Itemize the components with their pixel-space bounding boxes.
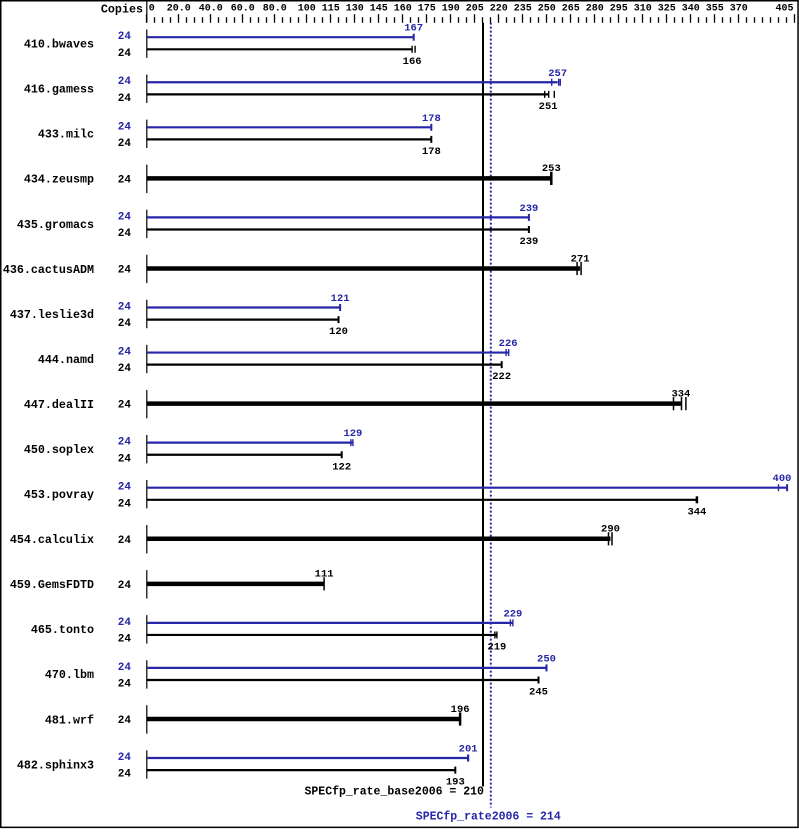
svg-text:280: 280 <box>586 4 604 15</box>
svg-text:178: 178 <box>422 113 441 125</box>
svg-text:24: 24 <box>118 318 132 330</box>
svg-text:239: 239 <box>519 203 538 215</box>
svg-text:24: 24 <box>118 498 132 510</box>
svg-text:20.0: 20.0 <box>167 4 191 15</box>
svg-text:416.gamess: 416.gamess <box>24 83 94 97</box>
svg-text:370: 370 <box>730 4 748 15</box>
svg-text:470.lbm: 470.lbm <box>45 668 94 682</box>
svg-text:SPECfp_rate2006 = 214: SPECfp_rate2006 = 214 <box>416 811 561 824</box>
svg-text:24: 24 <box>118 31 132 43</box>
svg-text:160: 160 <box>394 4 412 15</box>
svg-text:175: 175 <box>418 4 436 15</box>
svg-text:482.sphinx3: 482.sphinx3 <box>17 758 94 772</box>
svg-text:24: 24 <box>118 634 132 646</box>
svg-text:24: 24 <box>118 347 132 359</box>
svg-text:271: 271 <box>571 253 590 265</box>
svg-text:222: 222 <box>492 371 511 383</box>
svg-text:Copies: Copies <box>101 3 143 17</box>
svg-text:40.0: 40.0 <box>199 4 223 15</box>
svg-text:340: 340 <box>682 4 700 15</box>
svg-text:453.povray: 453.povray <box>24 488 94 502</box>
svg-text:129: 129 <box>343 428 362 440</box>
svg-text:24: 24 <box>118 138 132 150</box>
svg-text:122: 122 <box>332 461 351 473</box>
svg-text:0: 0 <box>149 4 155 15</box>
svg-text:24: 24 <box>118 580 132 592</box>
svg-text:410.bwaves: 410.bwaves <box>24 38 94 52</box>
svg-text:235: 235 <box>514 4 532 15</box>
svg-text:400: 400 <box>773 473 792 485</box>
svg-text:24: 24 <box>118 482 132 494</box>
svg-text:436.cactusADM: 436.cactusADM <box>3 263 94 277</box>
svg-text:447.dealII: 447.dealII <box>24 398 94 412</box>
svg-text:465.tonto: 465.tonto <box>31 623 94 637</box>
svg-text:265: 265 <box>562 4 580 15</box>
svg-text:245: 245 <box>529 687 548 699</box>
svg-text:334: 334 <box>671 388 690 400</box>
svg-text:344: 344 <box>687 506 706 518</box>
svg-text:434.zeusmp: 434.zeusmp <box>24 173 94 187</box>
svg-text:219: 219 <box>487 642 506 654</box>
svg-text:229: 229 <box>503 608 522 620</box>
svg-text:24: 24 <box>118 121 132 133</box>
svg-text:295: 295 <box>610 4 628 15</box>
svg-text:24: 24 <box>118 437 132 449</box>
svg-text:190: 190 <box>442 4 460 15</box>
svg-text:111: 111 <box>315 569 334 581</box>
svg-text:24: 24 <box>118 662 132 674</box>
svg-text:444.namd: 444.namd <box>38 353 94 367</box>
svg-text:201: 201 <box>459 744 478 756</box>
svg-text:145: 145 <box>370 4 388 15</box>
svg-text:24: 24 <box>118 400 132 412</box>
svg-text:450.soplex: 450.soplex <box>24 443 94 457</box>
svg-text:250: 250 <box>537 653 556 665</box>
svg-text:205: 205 <box>466 4 484 15</box>
svg-text:24: 24 <box>118 228 132 240</box>
svg-text:437.leslie3d: 437.leslie3d <box>10 308 94 322</box>
svg-text:24: 24 <box>118 715 132 727</box>
svg-text:24: 24 <box>118 93 132 105</box>
svg-text:24: 24 <box>118 769 132 781</box>
svg-text:250: 250 <box>538 4 556 15</box>
svg-text:24: 24 <box>118 265 132 277</box>
svg-text:405: 405 <box>775 4 793 15</box>
svg-text:355: 355 <box>706 4 724 15</box>
svg-text:435.gromacs: 435.gromacs <box>17 218 94 232</box>
svg-text:121: 121 <box>331 293 350 305</box>
svg-text:60.0: 60.0 <box>231 4 255 15</box>
svg-text:310: 310 <box>634 4 652 15</box>
svg-text:24: 24 <box>118 679 132 691</box>
svg-text:24: 24 <box>118 363 132 375</box>
svg-text:196: 196 <box>451 704 470 716</box>
svg-text:167: 167 <box>404 23 423 35</box>
svg-text:251: 251 <box>539 101 558 113</box>
svg-text:24: 24 <box>118 174 132 186</box>
svg-text:24: 24 <box>118 752 132 764</box>
svg-text:257: 257 <box>548 68 567 80</box>
svg-text:226: 226 <box>499 338 518 350</box>
svg-text:100: 100 <box>298 4 316 15</box>
svg-text:433.milc: 433.milc <box>38 128 94 142</box>
svg-text:166: 166 <box>403 56 422 68</box>
svg-text:SPECfp_rate_base2006 = 210: SPECfp_rate_base2006 = 210 <box>305 786 485 799</box>
svg-text:459.GemsFDTD: 459.GemsFDTD <box>10 578 94 592</box>
svg-text:454.calculix: 454.calculix <box>10 533 94 547</box>
svg-text:80.0: 80.0 <box>263 4 287 15</box>
svg-text:24: 24 <box>118 617 132 629</box>
svg-text:481.wrf: 481.wrf <box>45 713 94 727</box>
svg-text:130: 130 <box>346 4 364 15</box>
svg-text:24: 24 <box>118 76 132 88</box>
svg-text:24: 24 <box>118 302 132 314</box>
svg-text:325: 325 <box>658 4 676 15</box>
svg-text:24: 24 <box>118 211 132 223</box>
svg-text:239: 239 <box>519 236 538 248</box>
svg-text:290: 290 <box>601 524 620 536</box>
svg-text:120: 120 <box>329 326 348 338</box>
svg-text:220: 220 <box>490 4 508 15</box>
svg-text:24: 24 <box>118 453 132 465</box>
svg-text:24: 24 <box>118 535 132 547</box>
svg-text:115: 115 <box>322 4 340 15</box>
svg-text:24: 24 <box>118 48 132 60</box>
svg-text:253: 253 <box>542 163 561 175</box>
svg-text:178: 178 <box>422 146 441 158</box>
